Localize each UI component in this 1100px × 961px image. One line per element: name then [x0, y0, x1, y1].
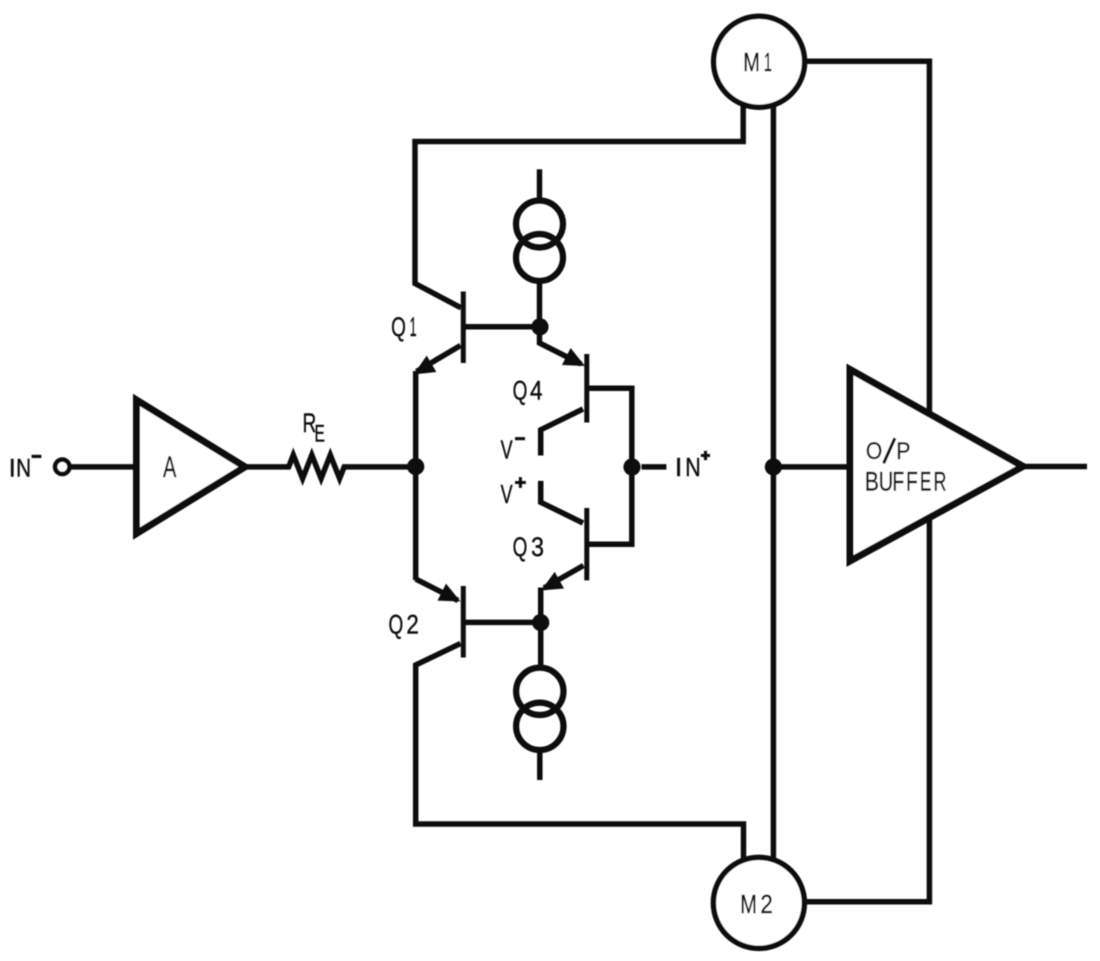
svg-text:4: 4: [530, 375, 543, 405]
svg-text:M: M: [740, 890, 757, 919]
svg-text:N: N: [685, 453, 700, 482]
svg-text:2: 2: [760, 891, 772, 920]
svg-text:A: A: [163, 451, 177, 484]
svg-text:N: N: [16, 453, 31, 481]
svg-text:R: R: [934, 466, 947, 497]
svg-text:1: 1: [410, 313, 417, 343]
svg-text:M: M: [743, 48, 760, 77]
svg-text:V: V: [501, 480, 513, 509]
svg-text:B: B: [865, 467, 879, 497]
svg-text:3: 3: [531, 533, 544, 563]
svg-text:Q: Q: [513, 532, 528, 562]
svg-text:2: 2: [406, 611, 418, 640]
svg-text:I: I: [675, 452, 682, 481]
svg-text:F: F: [906, 466, 918, 496]
svg-text:1: 1: [764, 49, 772, 77]
svg-text:V: V: [501, 435, 513, 464]
svg-text:I: I: [9, 455, 16, 483]
svg-text:P: P: [896, 437, 910, 465]
svg-text:F: F: [892, 466, 904, 496]
svg-text:E: E: [314, 421, 324, 447]
svg-text:Q: Q: [391, 311, 406, 341]
svg-text:O: O: [866, 438, 882, 465]
svg-text:Q: Q: [389, 609, 404, 639]
svg-text:U: U: [879, 467, 894, 498]
svg-text:Q: Q: [513, 375, 528, 405]
svg-text:E: E: [920, 467, 931, 497]
